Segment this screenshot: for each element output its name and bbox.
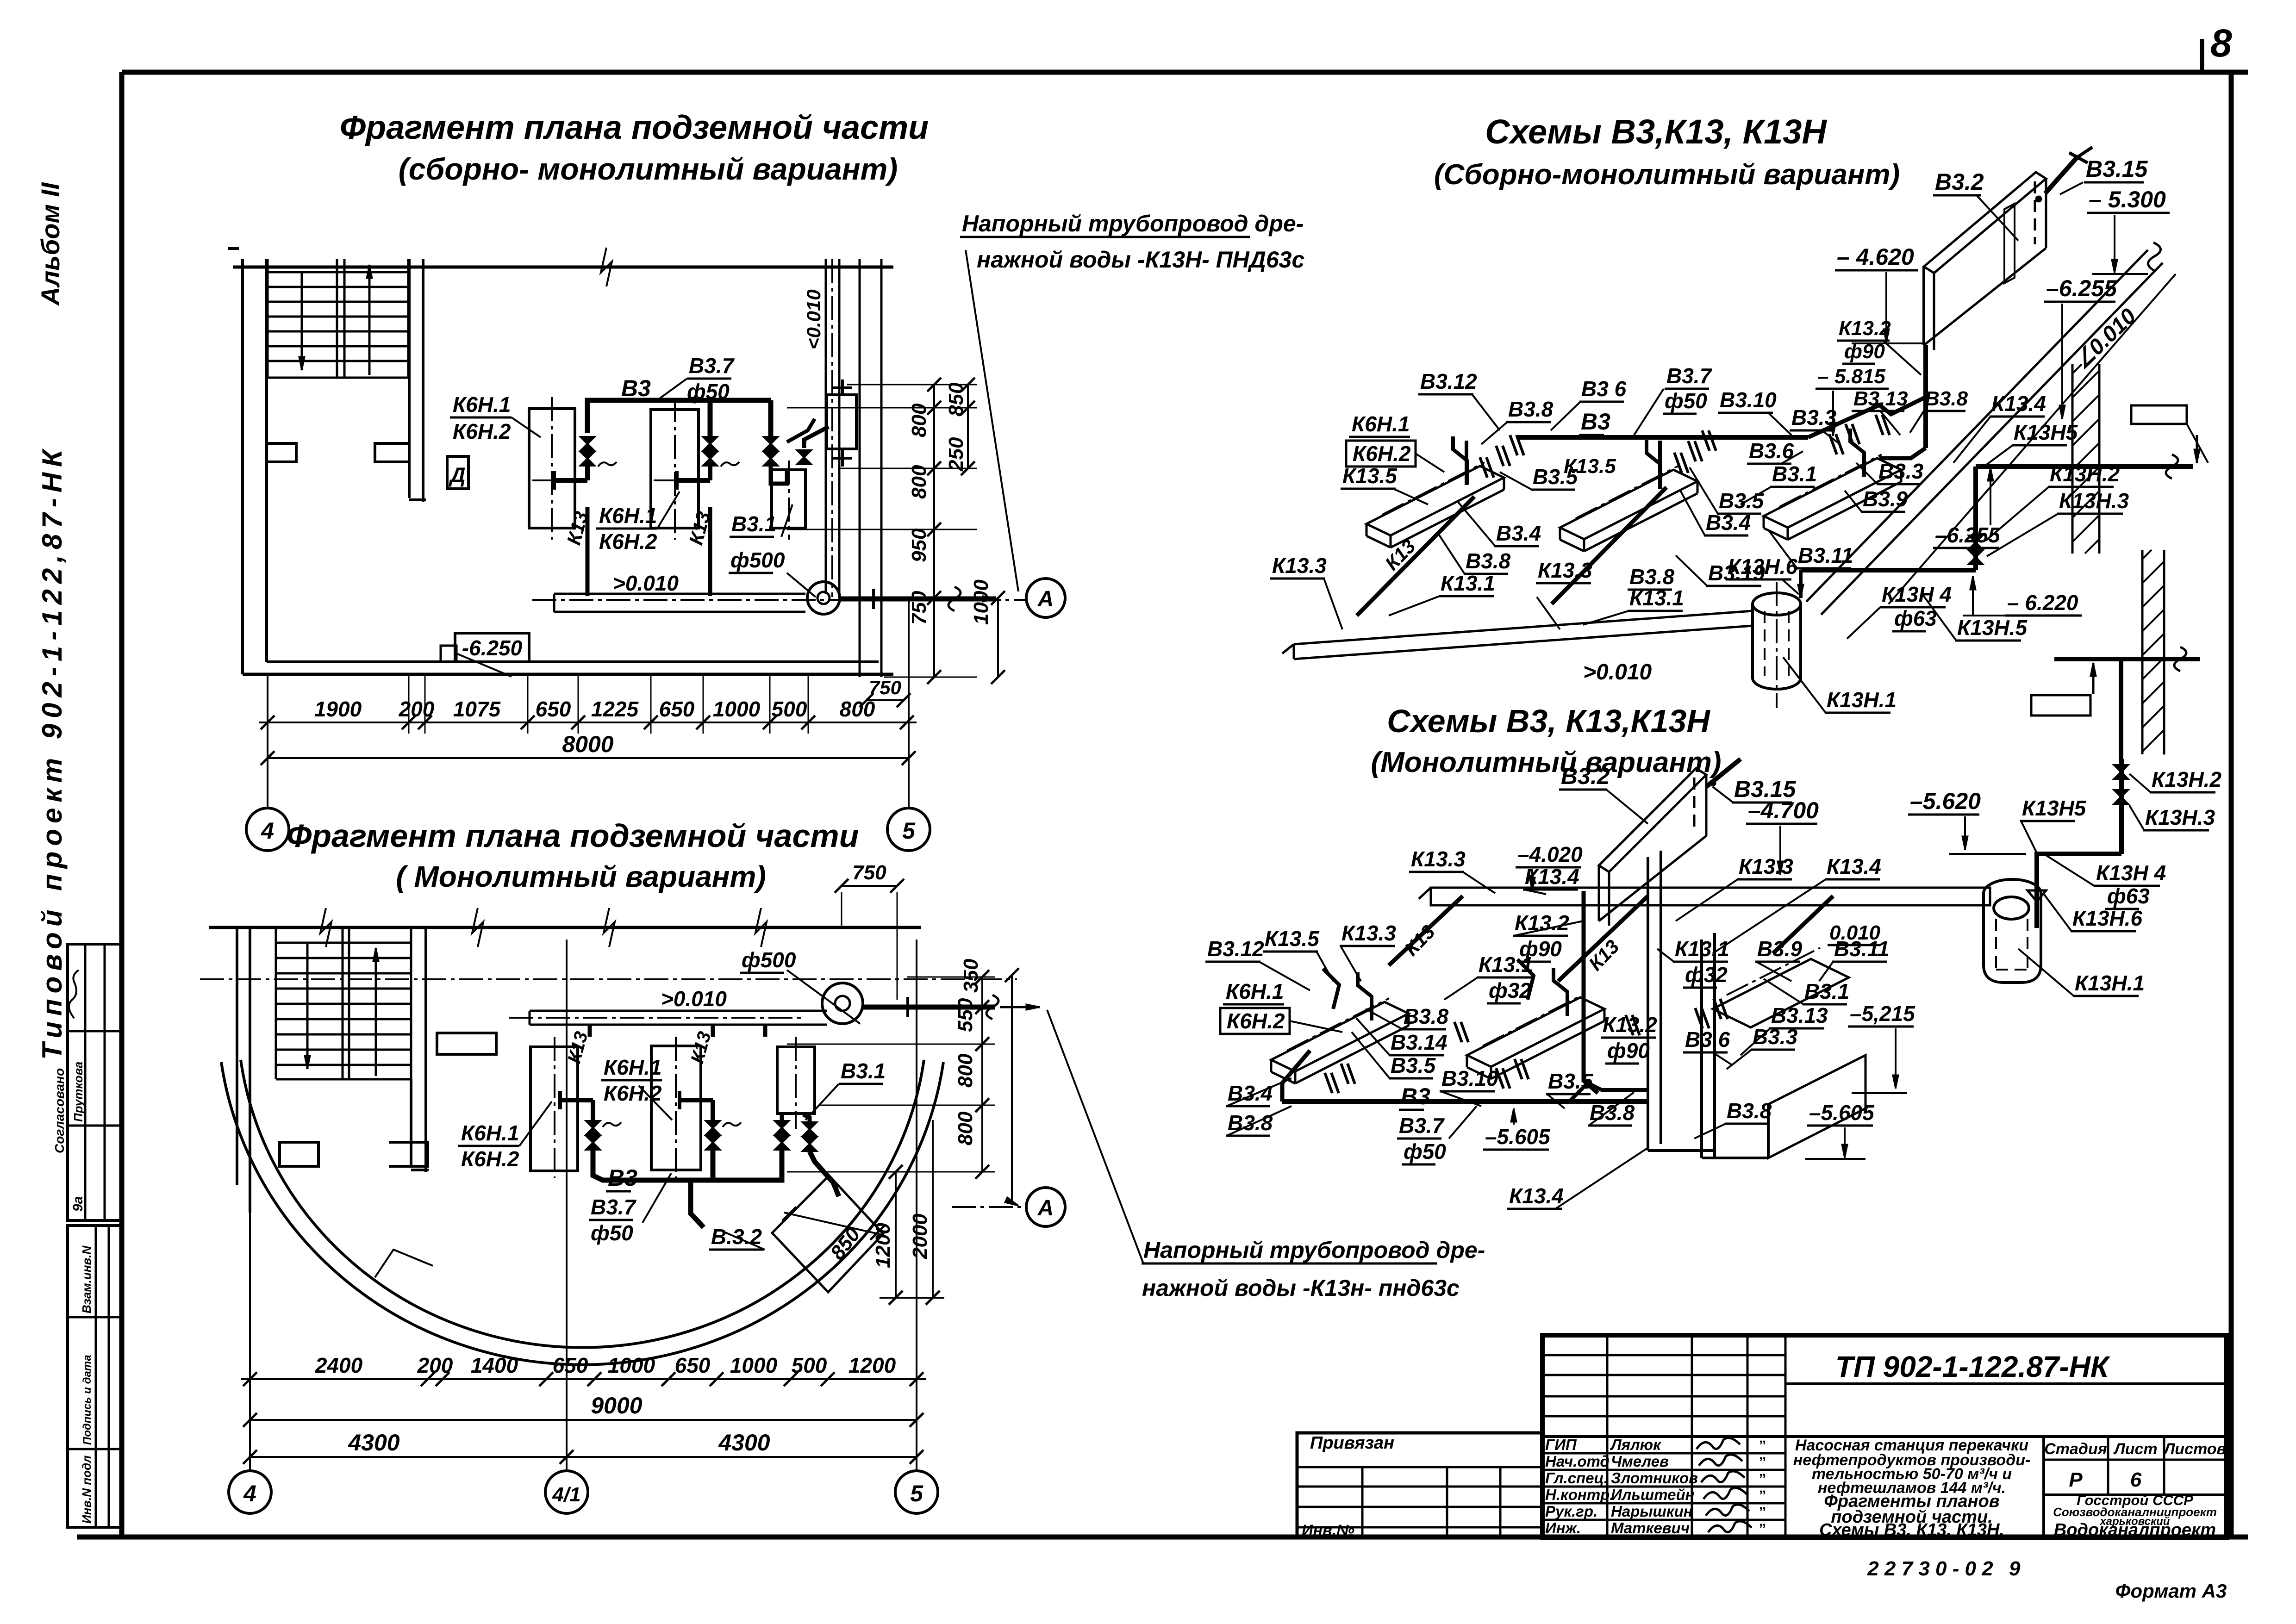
svg-text:6: 6	[2130, 1468, 2142, 1491]
svg-text:В3: В3	[608, 1165, 637, 1191]
plan1 axis circle 4	[246, 808, 289, 851]
plan1 K13 drain1	[586, 507, 590, 596]
svg-text:Подпись и дата: Подпись и дата	[81, 1355, 94, 1445]
svg-text:500: 500	[772, 697, 807, 721]
svg-text:1000: 1000	[970, 579, 992, 625]
svg-text:(сборно- монолитный вариант): (сборно- монолитный вариант)	[399, 152, 898, 186]
scheme1 low pipe arrow up	[2092, 663, 2095, 694]
scheme2 label К13.3 leader #7	[1676, 879, 1738, 921]
svg-text:В3.13: В3.13	[1771, 1003, 1828, 1027]
scheme1 label К13Н.1 leader #40	[1783, 657, 1826, 713]
svg-text:9000: 9000	[591, 1393, 642, 1419]
plan2 stair separator	[342, 927, 344, 1079]
svg-text:В3: В3	[621, 375, 651, 401]
scheme2 well inner dash	[1995, 919, 1997, 970]
svg-text:К13.1: К13.1	[1629, 586, 1684, 610]
svg-text:Листов: Листов	[2163, 1440, 2226, 1458]
scheme2 plate1	[1271, 1002, 1409, 1071]
plan1 valve group3	[764, 437, 778, 451]
plan2 drain circle outer	[822, 983, 863, 1024]
plan1 stair landing edge	[268, 377, 408, 379]
scheme1 label В3.4 leader #27	[1680, 491, 1705, 535]
plan1 pier stub left	[267, 443, 296, 462]
scheme1 beam rect	[2131, 405, 2187, 424]
svg-text:К13Н5: К13Н5	[2014, 420, 2078, 444]
margin table A col2	[104, 944, 106, 1220]
scheme2 K13 diag2	[1558, 896, 1648, 981]
scheme1 pipe K13N5 sbreak	[2166, 454, 2178, 479]
scheme1 pipe K13N5 horiz	[1976, 464, 2193, 469]
svg-text:А: А	[1037, 587, 1054, 611]
plan1 outlet arrow	[983, 596, 996, 602]
svg-text:-6.250: -6.250	[462, 636, 523, 660]
scheme2 label В3.14 leader #27	[1356, 1018, 1390, 1055]
svg-text:800: 800	[908, 465, 930, 499]
titleblock name row 3176	[1542, 1469, 1785, 1471]
svg-text:К13Н.3: К13Н.3	[2145, 805, 2215, 829]
scheme2 label В3.8 leader #39	[1589, 1092, 1634, 1126]
svg-text:В3.1: В3.1	[731, 512, 776, 536]
plan2 pipe V32 branch	[810, 1151, 839, 1196]
titleblock sig 5	[1708, 1521, 1752, 1532]
plan1 ext line axis4	[267, 676, 268, 808]
plan2 pier stub left	[280, 1142, 318, 1166]
svg-text:К13.3: К13.3	[1272, 554, 1327, 578]
plan1 axis A dashdot	[532, 599, 1026, 601]
plan1 dim row1	[259, 722, 917, 723]
titleblock stage cols2	[2107, 1437, 2109, 1495]
svg-text:650: 650	[536, 697, 571, 721]
svg-text:ф63: ф63	[1894, 606, 1937, 630]
svg-text:Напорный трубопровод дре-: Напорный трубопровод дре-	[962, 211, 1304, 236]
titleblock sig 3	[1703, 1488, 1747, 1499]
plan2 label K6N b divider	[458, 1145, 519, 1147]
scheme1 well bottom arc	[1753, 678, 1801, 689]
plan2 axis A dashdot right	[952, 1206, 1027, 1208]
plan2 pump2 centerline	[675, 1037, 677, 1178]
svg-text:В3.15: В3.15	[1734, 776, 1797, 802]
plan1 dim row2	[268, 757, 909, 759]
plan2 dim row1	[241, 1378, 926, 1380]
plan2 vdim 2000 line	[932, 1120, 934, 1298]
plan2 label K6N a divider	[601, 1079, 662, 1082]
plan2 trench dashdot	[509, 1017, 801, 1019]
plan2 top wall break x1032	[472, 908, 483, 947]
svg-text:В3.8: В3.8	[1925, 387, 1968, 410]
svg-text:В3.14: В3.14	[1391, 1030, 1447, 1054]
svg-text:К13Н.5: К13Н.5	[1957, 616, 2028, 640]
scheme2 plate3 flat	[1713, 959, 1849, 1027]
scheme1 label В3.10 leader #7	[1768, 413, 1791, 435]
plan1 pipe V3 drop2	[708, 400, 713, 436]
sheet frame bottom edge	[77, 1535, 2248, 1540]
scheme2 label В3.1 leader #19	[1764, 979, 1803, 1004]
scheme1 K13 branch1	[1357, 497, 1474, 616]
plan1 pier stub right	[375, 443, 409, 462]
plan2 pump1 rect	[530, 1047, 578, 1171]
svg-text:В3.11: В3.11	[1798, 543, 1853, 567]
svg-text:К13Н.3: К13Н.3	[2059, 489, 2129, 513]
plan2 suction tee2	[680, 1098, 713, 1102]
plan2 main axis dashdot	[200, 978, 1017, 980]
svg-text:>0.010: >0.010	[1583, 660, 1652, 684]
svg-text:650: 650	[553, 1353, 588, 1377]
scheme1 label К13Н.5 leader #39	[1921, 592, 1956, 641]
plan1 top wall break	[601, 248, 612, 286]
plan1 wall line x1904	[880, 259, 883, 677]
titleblock header line	[1785, 1382, 2227, 1385]
svg-text:К13Н 4: К13Н 4	[2096, 861, 2166, 885]
plan1 wall line x1859	[859, 259, 861, 677]
scheme2 K13 drop x3421	[1584, 891, 1598, 1093]
svg-text:ф63: ф63	[2107, 884, 2150, 908]
plan2 arc leader	[375, 1250, 433, 1277]
scheme1 label К13.1 leader #31	[1389, 596, 1440, 616]
scheme1 label В3.8 leader #11	[1910, 411, 1924, 433]
plan2 left wall inner	[249, 927, 251, 1213]
scheme1 pipe V3 horizontal	[1518, 435, 1808, 440]
plan1 label f500 leader	[787, 573, 816, 597]
svg-text:<0.010: <0.010	[803, 289, 824, 349]
scheme2 label В3.8 leader #26	[1366, 1009, 1403, 1029]
svg-text:В3.7: В3.7	[591, 1195, 637, 1219]
plan1 pump3 rect	[772, 470, 805, 528]
scheme2 label К13Н.3 leader #4	[2129, 805, 2144, 830]
svg-text:К13.5: К13.5	[1265, 927, 1320, 951]
scheme2 label В3.15 leader #1	[1713, 787, 1733, 803]
svg-text:–5.620: –5.620	[1910, 788, 1981, 814]
scheme1 scheme2 riser top	[2119, 659, 2123, 759]
plan1 trench left cap	[553, 594, 555, 612]
plan2 stair landing edge	[276, 1078, 411, 1081]
scheme1 sloped channel sbreak	[2148, 243, 2160, 271]
plan2 dim row2	[250, 1419, 917, 1421]
svg-text:ˮ: ˮ	[1759, 1521, 1766, 1537]
plan1 valve4	[797, 450, 811, 464]
svg-text:нажной воды -К13Н- ПНД63с: нажной воды -К13Н- ПНД63с	[977, 247, 1304, 273]
svg-text:850: 850	[945, 382, 967, 417]
svg-text:В3.7: В3.7	[1399, 1114, 1445, 1138]
plan2 pipe V3 drop2	[711, 1150, 716, 1180]
scheme2 pipe V3 left up	[1282, 1051, 1310, 1101]
plan2 vdim 1200 line	[895, 1172, 897, 1298]
titleblock small row 2971	[1542, 1374, 1785, 1376]
svg-text:К6Н.1: К6Н.1	[1226, 979, 1284, 1003]
svg-text:1900: 1900	[314, 697, 362, 721]
scheme1 K13 branch2	[1552, 487, 1666, 604]
plan2 K13 drop2	[711, 1025, 715, 1037]
scheme1 well sides	[1751, 604, 1754, 678]
plan1 riser diag	[787, 419, 815, 442]
plan2 label V3.1 leader	[805, 1084, 839, 1120]
scheme1 riser pipe	[1923, 345, 1928, 448]
sheet frame top edge	[122, 70, 2248, 75]
scheme2 label К13Н.6 leader #11	[2043, 893, 2071, 931]
titleblock stage header row	[2044, 1459, 2227, 1461]
plan2 drain leader from f500	[787, 970, 860, 1024]
plan1 vdim line A	[933, 385, 935, 677]
plan1 label K6N divider	[450, 417, 512, 419]
plan2 label K6N b leader	[519, 1101, 552, 1146]
scheme1 sloped channel line1	[1806, 250, 2148, 602]
plan1 K13 drain2	[708, 507, 712, 596]
plan1 room letter D box	[447, 456, 468, 489]
plan2 axis41 line	[566, 940, 568, 1471]
svg-text:К6Н.1: К6Н.1	[461, 1121, 519, 1145]
plan2 valve group2 squiggle	[723, 1122, 741, 1127]
svg-text:К6Н.1: К6Н.1	[604, 1055, 661, 1079]
svg-text:Схемы В3, К13,К13Н: Схемы В3, К13,К13Н	[1387, 703, 1710, 739]
svg-text:ф500: ф500	[730, 548, 785, 572]
plan2 trench top	[530, 1010, 827, 1012]
svg-text:ф90: ф90	[1607, 1039, 1650, 1063]
scheme2 plate2 drop	[1517, 959, 1534, 1000]
scheme2 riser elbow	[2037, 854, 2121, 928]
plan1 bottom wall outer	[243, 673, 893, 676]
page number 8 tick	[2200, 39, 2204, 74]
svg-text:К6Н.2: К6Н.2	[1227, 1009, 1285, 1033]
svg-text:Привязан: Привязан	[1310, 1433, 1394, 1453]
scheme2 pipe right vert	[1702, 1129, 1768, 1130]
plan2 outlet pipe	[862, 1005, 995, 1010]
scheme2 riser wall2 bottom	[1702, 1157, 1768, 1159]
scheme2 level -5.605 b base	[1805, 1158, 1865, 1160]
svg-text:Чмелев: Чмелев	[1611, 1453, 1669, 1470]
plan2 hexts	[907, 977, 995, 978]
svg-text:8: 8	[2210, 21, 2232, 65]
svg-text:750: 750	[852, 861, 886, 884]
scheme1 label В3.6 leader #17	[1781, 451, 1803, 464]
svg-text:Пруткова: Пруткова	[71, 1062, 85, 1122]
svg-text:Напорный трубопровод дре-: Напорный трубопровод дре-	[1143, 1237, 1485, 1263]
svg-text:В3.1: В3.1	[841, 1059, 886, 1083]
plan1 label K6N b leader	[657, 492, 680, 529]
svg-text:К6Н.2: К6Н.2	[453, 419, 511, 443]
plan1 pump1 centerline	[551, 397, 553, 540]
svg-text:Водоканалпроект: Водоканалпроект	[2054, 1520, 2216, 1540]
plan1 stair up arrow	[368, 265, 371, 375]
titleblock sig 1	[1699, 1455, 1742, 1466]
svg-text:(Монолитный вариант): (Монолитный вариант)	[1371, 747, 1721, 778]
plan2 stair wall below a	[410, 1079, 412, 1166]
plan1 axis circle 5	[887, 808, 930, 851]
plan2 axis circle A2	[1026, 1188, 1065, 1226]
scheme1 label К13.5 leader #23	[1393, 489, 1428, 504]
margin table A signature	[69, 970, 79, 1018]
plan2 dim 750 ext a	[841, 892, 842, 926]
scheme2 label ф32 leader #16	[1657, 949, 1674, 962]
svg-text:Злотников: Злотников	[1611, 1469, 1698, 1487]
scheme1 wall V3.2 dot	[2035, 196, 2042, 202]
scheme2 wall V3.8 panel	[1768, 1055, 1865, 1158]
svg-text:Согласовано: Согласовано	[52, 1068, 67, 1153]
svg-text:К6Н.1: К6Н.1	[599, 504, 657, 528]
svg-text:ГИП: ГИП	[1545, 1436, 1577, 1453]
scheme1 label В3.12 leader #2	[1472, 394, 1500, 430]
svg-text:К6Н.2: К6Н.2	[599, 529, 657, 554]
scheme1 low pipe rect	[2031, 695, 2090, 716]
plan1 riser tick bottom	[833, 457, 852, 460]
plan2 inner arc	[241, 1060, 924, 1348]
plan1 riser tick top	[833, 386, 852, 389]
plan1 stair separator	[336, 259, 338, 378]
scheme1 level -5.300 base	[2092, 273, 2148, 275]
scheme1 label К13Н.3 leader #22	[1987, 514, 2058, 556]
svg-text:А: А	[1037, 1196, 1054, 1220]
svg-text:500: 500	[792, 1353, 827, 1377]
svg-text:– 5.300: – 5.300	[2089, 187, 2166, 212]
scheme1 pipe V3 diag to riser	[1808, 397, 1926, 437]
plan2 stair left rail	[275, 927, 277, 1079]
scheme1 pipe V3.15 arrow fork	[2069, 153, 2088, 163]
scheme2 label В3.5 leader #32	[1547, 1094, 1565, 1108]
plan2 axis circle 5	[895, 1471, 938, 1513]
plan1 vdim extension lines	[847, 384, 977, 386]
scheme1 riser bottom elbow	[1879, 448, 1926, 458]
svg-text:8000: 8000	[562, 731, 613, 757]
plan1 pump2 centerline	[674, 398, 676, 540]
plan2 valve group1	[586, 1121, 600, 1135]
scheme2 label В3.10 leader #31	[1441, 1091, 1481, 1106]
scheme2 riser check	[2028, 890, 2046, 902]
titleblock stage col	[2042, 1437, 2045, 1537]
scheme2 label В3.9 leader #17	[1756, 962, 1791, 981]
svg-text:ф500: ф500	[742, 948, 796, 972]
svg-text:800: 800	[954, 1053, 977, 1088]
plan2 top wall break x704	[320, 908, 331, 947]
scheme1 label В3.11 leader #29	[1768, 530, 1797, 568]
svg-text:–5,215: –5,215	[1850, 1002, 1915, 1026]
svg-text:Д: Д	[448, 463, 465, 487]
scheme1 label ф63 leader #38	[1847, 607, 1880, 639]
svg-text:В3.4: В3.4	[1706, 510, 1751, 535]
scheme1 branch1 top	[1465, 441, 1468, 485]
scheme1 hatched wall A	[2071, 364, 2074, 554]
titleblock name row 3212	[1542, 1486, 1785, 1488]
scheme1 label В3.3 leader #16	[1822, 430, 1840, 444]
svg-text:– 6.220: – 6.220	[2007, 591, 2078, 615]
titleblock name row 3140	[1542, 1452, 1785, 1455]
plan2 label K6N a leader	[639, 1086, 672, 1120]
scheme1 well inner dash	[1764, 611, 1766, 676]
scheme1 label В3 6 leader #3	[1551, 402, 1580, 430]
svg-text:К13Н.1: К13Н.1	[2075, 971, 2145, 995]
svg-text:ф90: ф90	[1844, 340, 1885, 363]
scheme2 label К13.4 leader #6	[1524, 890, 1546, 894]
scheme2 wall V3.2 dashes	[1693, 778, 1696, 833]
titleblock small row 2928	[1542, 1354, 1785, 1356]
plan1 dim 750 line	[867, 699, 904, 701]
svg-text:200: 200	[417, 1353, 453, 1377]
svg-text:200: 200	[399, 697, 435, 721]
svg-text:К13.2: К13.2	[1839, 317, 1891, 340]
plan2 axis4 line	[249, 927, 251, 1471]
scheme1 label ф90 leader #9	[1883, 341, 1921, 375]
svg-text:К6Н.1: К6Н.1	[453, 392, 511, 417]
plan2 stair steps	[276, 942, 411, 944]
svg-text:В3.12: В3.12	[1420, 369, 1477, 393]
svg-text:В3.8: В3.8	[1466, 549, 1511, 573]
svg-text:В3.7: В3.7	[1666, 364, 1713, 388]
plan2 small rect	[437, 1033, 496, 1054]
plan1 right stair wall cap	[409, 498, 426, 501]
plan2 diamond	[772, 1176, 883, 1292]
plan1 pump2 crossline	[654, 479, 695, 481]
scheme1 label К13Н.2 leader #21	[1986, 487, 2049, 541]
plan2 diamond dim 850 ticks	[784, 1213, 882, 1235]
svg-text:К6Н.2: К6Н.2	[1353, 442, 1411, 466]
svg-text:В3.3: В3.3	[1753, 1025, 1798, 1049]
scheme1 hatched wall B	[2141, 550, 2144, 754]
scheme1 label В3.3 leader #19	[1856, 463, 1878, 484]
scheme1 plate1	[1366, 466, 1504, 535]
plan1 suction tee2	[677, 478, 710, 483]
plan1 ext line axis5	[908, 676, 910, 808]
svg-text:К13Н 4: К13Н 4	[1882, 582, 1952, 606]
svg-text:ТП 902-1-122.87-НК: ТП 902-1-122.87-НК	[1835, 1350, 2110, 1383]
plan2 trench left cap	[529, 1011, 531, 1025]
svg-text:В3.3: В3.3	[1878, 459, 1924, 483]
scheme1 label К13Н5 leader #13	[1986, 445, 2013, 465]
scheme1 pipe K13N riser	[1973, 467, 1978, 570]
svg-text:650: 650	[675, 1353, 711, 1377]
svg-text:Схемы В3, К13, К13Н.: Схемы В3, К13, К13Н.	[1819, 1520, 2004, 1540]
scheme1 low pipe sbreak	[2174, 647, 2186, 671]
scheme2 pipe bends mid	[1569, 1083, 1648, 1101]
titleblock left table outer	[1297, 1433, 1542, 1537]
scheme2 label К13.3 leader #23	[1341, 946, 1361, 981]
scheme1 pipe K13N5 end arrow	[2196, 435, 2198, 463]
plan2 pump3 rect	[777, 1047, 815, 1114]
svg-text:–6.255: –6.255	[1935, 523, 2001, 547]
plan2 top wall break x1316	[604, 908, 615, 947]
scheme2 valve K13N.3b	[2114, 790, 2128, 804]
plan2 K13 drop3	[763, 1025, 767, 1037]
svg-text:550: 550	[954, 998, 977, 1032]
svg-text:800: 800	[954, 1111, 977, 1145]
plan2 outer arc	[221, 1062, 943, 1365]
svg-text:Рук.гр.: Рук.гр.	[1545, 1503, 1597, 1520]
plan1 stair steps	[268, 271, 408, 274]
svg-text:Фрагмент плана подземной ча: Фрагмент плана подземной части	[340, 109, 929, 146]
svg-text:350: 350	[960, 958, 982, 993]
svg-text:В3.6: В3.6	[1749, 439, 1794, 463]
titleblock row 3104	[1542, 1435, 2227, 1438]
plan2 top wall	[209, 926, 921, 929]
scheme1 label В3.5 leader #26	[1690, 467, 1718, 514]
plan1 riser box	[827, 395, 856, 449]
svg-text:( Монолитный вариант): ( Монолитный вариант)	[396, 860, 766, 893]
svg-text:2400: 2400	[315, 1353, 363, 1377]
plan1 stair right rail	[407, 259, 410, 378]
scheme2 label В3.8 leader #40	[1694, 1124, 1726, 1139]
margin table B col2	[108, 1226, 110, 1527]
plan1 valve4 stub	[804, 427, 829, 448]
plan1 pump1 rect	[529, 409, 575, 528]
plan1 pump1 crossline	[532, 479, 572, 481]
svg-text:В3.9: В3.9	[1757, 937, 1803, 961]
scheme1 well centerline	[1776, 582, 1778, 708]
scheme1 label К13.4 leader #12	[1953, 417, 1990, 463]
svg-text:1000: 1000	[608, 1353, 655, 1377]
plan1 stair down arrow	[301, 272, 303, 370]
svg-text:В3.2: В3.2	[1935, 169, 1984, 195]
svg-text:В3.10: В3.10	[1720, 388, 1777, 412]
scheme2 label ф63 leader #10	[2046, 855, 2094, 886]
svg-text:К13.4: К13.4	[1509, 1184, 1564, 1208]
svg-text:1400: 1400	[471, 1353, 518, 1377]
svg-text:В3.6: В3.6	[1685, 1027, 1730, 1052]
